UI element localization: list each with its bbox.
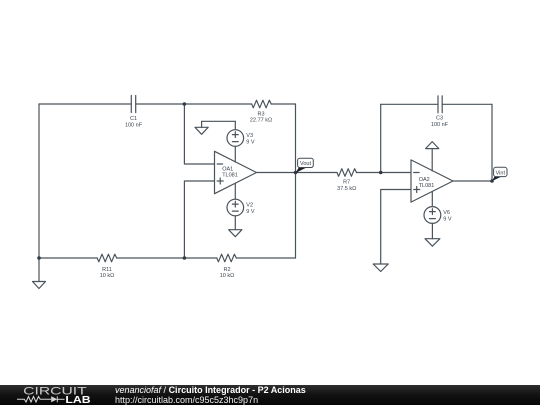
svg-text:Vint: Vint (496, 170, 506, 176)
svg-text:V2: V2 (246, 203, 253, 209)
wire bottom to R11 (39, 257, 97, 259)
svg-text:9 V: 9 V (443, 217, 452, 223)
capacitor C3 (438, 96, 442, 113)
wire C3 top right (442, 103, 492, 105)
svg-text:9 V: 9 V (246, 209, 255, 215)
svg-text:TL081: TL081 (222, 173, 238, 179)
resistor R2 (217, 254, 237, 262)
wire V3 top stem (234, 121, 236, 129)
node junction OA2 output (490, 179, 494, 183)
wire top-left horizontal (39, 103, 131, 105)
power arrow above OA2 (431, 149, 433, 171)
wire V6 bottom stem (431, 223, 433, 238)
node Vout flag (296, 158, 314, 173)
wire V3 to ground flag (202, 121, 236, 127)
svg-text:LAB: LAB (65, 395, 90, 405)
svg-text:V3: V3 (246, 133, 253, 139)
node junction R11/R2 (183, 256, 187, 260)
resistor R11 (97, 254, 117, 262)
voltage source V3 (227, 130, 244, 147)
wire Vout to R7 (296, 172, 338, 174)
wire OA2 bottom to V6 (431, 192, 433, 207)
wire R2 to right vertical (236, 257, 295, 259)
svg-text:Vout: Vout (300, 161, 311, 167)
capacitor C1 (131, 96, 135, 113)
svg-text:37.5 kΩ: 37.5 kΩ (337, 186, 356, 192)
node junction bottom left (37, 256, 41, 260)
svg-text:C1: C1 (130, 116, 137, 122)
wire V3 to OA1 top (234, 146, 236, 162)
resistor R3 (252, 100, 272, 108)
resistor R7 (337, 169, 357, 177)
ground below OA2 + input (373, 264, 388, 272)
footer text (115, 385, 306, 395)
voltage source V6 (424, 207, 441, 224)
svg-text:R7: R7 (343, 180, 350, 186)
svg-text:C3: C3 (436, 116, 443, 122)
footer bar (0, 385, 540, 405)
op-amp OA1 (215, 151, 257, 193)
ground left-bottom (38, 258, 40, 282)
wire R3 to right vertical (271, 103, 295, 105)
voltage source V2 (227, 199, 244, 216)
svg-text:R2: R2 (223, 267, 230, 273)
node junction R7/C3 (379, 171, 383, 175)
wire R7 to OA2 (357, 172, 412, 174)
wire OA1 output (257, 172, 296, 174)
svg-text:10 kΩ: 10 kΩ (100, 273, 115, 279)
wire R11 to R2 (117, 257, 217, 259)
wire right vertical x=295.5 (295, 104, 297, 258)
ground above OA1 (195, 127, 208, 134)
svg-text:10 kΩ: 10 kΩ (220, 273, 235, 279)
svg-text:R11: R11 (102, 267, 112, 273)
node junction C1/R3 (183, 102, 187, 106)
wire OA1 bottom to V2 (234, 183, 236, 199)
svg-text:100 nF: 100 nF (125, 122, 143, 128)
wire C3 left vertical (380, 104, 382, 172)
wire non-inverting input OA1 (184, 181, 214, 258)
wire C3 top left (381, 103, 438, 105)
ground below V2 (229, 230, 242, 237)
svg-text:100 nF: 100 nF (431, 122, 449, 128)
wire right vertical x=492 (491, 104, 493, 181)
svg-text:V6: V6 (443, 210, 450, 216)
wire non-inverting input OA2 (381, 190, 411, 265)
node junction OA1 output (294, 171, 298, 175)
CircuitLab logo (0, 382, 110, 405)
op-amp OA2 (411, 160, 453, 202)
node Vint flag (492, 167, 507, 181)
wire inverting input OA1 (184, 104, 214, 164)
svg-text:9 V: 9 V (246, 140, 255, 146)
ground below V6 (425, 239, 440, 247)
svg-text:22.77 kΩ: 22.77 kΩ (250, 118, 272, 124)
wire OA2 output (453, 180, 492, 182)
wire C1 to R3 (136, 103, 252, 105)
wire V2 bottom stem (234, 216, 236, 230)
wire left vertical x=39 (38, 104, 40, 258)
svg-text:TL081: TL081 (419, 183, 435, 189)
